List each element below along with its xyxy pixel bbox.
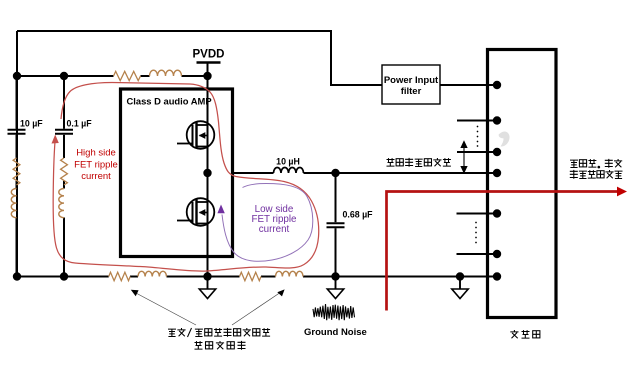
dotted separator upper: [477, 126, 479, 147]
capacitor 0.1 uF: [55, 130, 73, 134]
node output of half bridge: [203, 169, 211, 177]
transistor Q2 low side FET: [177, 198, 214, 226]
text CJK: coupling to other traces (耦合到其他走线): [387, 158, 451, 167]
wire branch2 lower: [63, 218, 65, 277]
wire branch2 mid: [63, 135, 65, 158]
ground under 0.68uF: [327, 277, 343, 299]
wire branch2 between R and L: [63, 181, 65, 189]
text Low side FET ripple current: [251, 204, 297, 235]
connector box: [488, 50, 557, 318]
text CJK: parasitic R of ground/vias (地线/地过孔的寄生电阻): [168, 328, 270, 337]
svg-text:0.1 µF: 0.1 µF: [67, 119, 93, 129]
svg-text:Power Input: Power Input: [384, 75, 439, 86]
wire top rail from top-left corner to filter: [17, 31, 382, 85]
wire branch1 upper: [16, 76, 18, 129]
thick red conducted-noise arrow: [387, 192, 619, 311]
node 0.68uF bottom junction: [331, 272, 339, 280]
wire filter to connector: [440, 84, 497, 86]
leader arrowhead right: [277, 289, 284, 296]
svg-text:current: current: [81, 171, 111, 182]
ground near connector: [452, 277, 468, 299]
svg-text:10 µH: 10 µH: [276, 157, 300, 167]
transistor Q1 high side FET: [177, 121, 214, 149]
node branch2 top junction: [60, 72, 68, 80]
leader line right: [232, 292, 281, 325]
wire branch1 lower: [16, 218, 18, 277]
leader arrowhead left: [131, 290, 139, 296]
resistor parasitic branch2: [61, 158, 68, 185]
wire output line: [234, 172, 274, 174]
resistor parasitic ground rail right: [240, 272, 262, 280]
inductor parasitic branch1: [11, 189, 16, 218]
text CJK: ground noise conducted (地噪声，传导): [570, 159, 622, 169]
coupling double arrow: [461, 142, 467, 173]
wire PVDD rail y=76: [17, 75, 114, 77]
node left bus top junction: [13, 72, 21, 80]
svg-text:High side: High side: [76, 148, 116, 159]
Power Input filter box: [382, 65, 440, 104]
resistor parasitic branch1: [13, 158, 20, 185]
node PVDD junction: [203, 72, 211, 80]
svg-text:Ground Noise: Ground Noise: [304, 327, 367, 338]
leader line left: [135, 293, 196, 326]
wire left vertical bus: [16, 31, 18, 277]
inductor parasitic ground rail right: [276, 271, 304, 276]
resistor parasitic ground rail left: [109, 272, 131, 280]
capacitor 10 uF: [8, 130, 26, 134]
purple low-side ripple current loop: [222, 184, 313, 262]
Ground Noise squiggle: [313, 304, 355, 320]
wire connector stub pin3: [457, 151, 497, 153]
capacitor C3 0.68 uF: [327, 223, 345, 227]
wire branch2 upper: [63, 76, 65, 129]
node 0.68uF top junction: [331, 169, 339, 177]
svg-text:FET ripple: FET ripple: [74, 160, 118, 171]
red high-side ripple current loop: [53, 83, 319, 272]
svg-text:current: current: [259, 224, 290, 235]
watermark grey quote: [499, 131, 510, 146]
wire between R and L on PVDD rail: [141, 75, 150, 77]
text CJK: and parasitic L (和寄生电感): [195, 341, 246, 350]
node amp ground junction: [203, 272, 211, 280]
svg-text:0.68 µF: 0.68 µF: [343, 210, 374, 220]
wire ground rail segments: [17, 276, 109, 278]
text CJK: connector label (连接器): [510, 330, 540, 338]
inductor L1 10 uH: [274, 168, 304, 174]
text CJK: to speaker cable (至扬声器线缆): [570, 170, 623, 179]
wire 0.68uF branch: [335, 173, 337, 222]
Class D audio AMP box U1: [121, 89, 233, 257]
ground under AMP: [199, 277, 215, 299]
inductor parasitic ground rail left: [138, 271, 166, 276]
node branch2 bottom junction: [60, 272, 68, 280]
wire connector stub pin5: [457, 213, 498, 215]
text High side FET ripple current: [74, 148, 118, 183]
PVDD supply bar: [197, 61, 221, 64]
resistor R parasitic on PVDD rail: [114, 71, 141, 80]
svg-text:Class D audio AMP: Class D audio AMP: [127, 96, 212, 107]
wire branch1 between R and L: [16, 181, 18, 189]
svg-text:filter: filter: [401, 86, 422, 97]
svg-text:PVDD: PVDD: [193, 49, 225, 61]
inductor L parasitic on PVDD rail: [150, 70, 182, 76]
node ground near connector: [456, 272, 464, 280]
wire connector stub pin2: [457, 120, 497, 122]
connector pins: [493, 81, 501, 89]
red arrow into 0.1uF: [52, 135, 59, 144]
wire main vertical through AMP: [207, 63, 209, 277]
purple arrow toward low FET: [217, 205, 224, 214]
svg-text:10 µF: 10 µF: [20, 119, 43, 129]
inductor parasitic branch2: [59, 189, 64, 218]
dotted separator lower: [475, 222, 477, 244]
wire branch1 mid: [16, 135, 18, 158]
node left bus bottom junction: [13, 272, 21, 280]
wire connector stub pin6: [457, 253, 498, 255]
wire L to PVDD node: [182, 75, 208, 77]
